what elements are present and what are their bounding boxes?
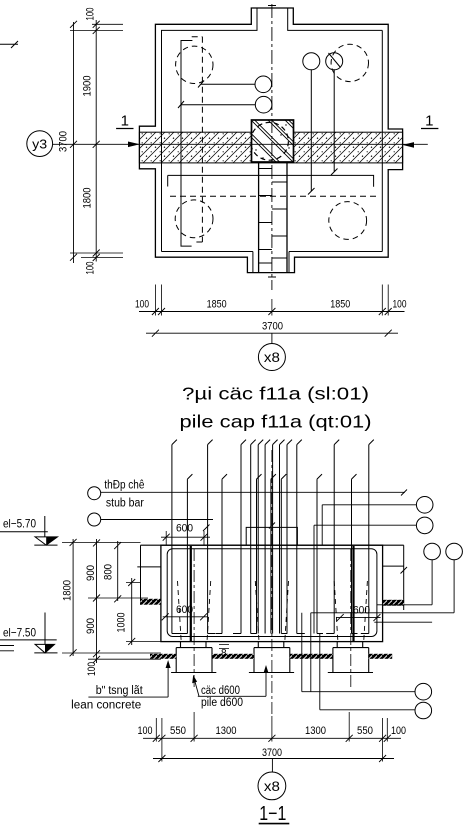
svg-text:100: 100 <box>391 725 406 737</box>
svg-text:100: 100 <box>86 662 98 676</box>
svg-text:1300: 1300 <box>216 725 237 737</box>
callout circle R4 <box>311 543 463 692</box>
svg-text:100: 100 <box>85 262 97 275</box>
label pile d600 <box>192 665 268 709</box>
svg-text:600: 600 <box>353 605 370 617</box>
pile 1 below cap <box>171 642 216 673</box>
section title 1-1 <box>259 803 290 825</box>
dim line 900/900/100 <box>93 539 100 663</box>
count bubble x8 (plan) <box>258 333 285 370</box>
left lean concrete pad <box>141 599 161 605</box>
right formwork step <box>383 545 407 610</box>
extension lines plan bottom <box>155 285 388 316</box>
dim line 100/1900/1800/100 vertical <box>93 20 100 262</box>
hatched concrete band (section cut strip) <box>139 132 402 163</box>
pile circle bottom-right (dashed) <box>329 202 367 240</box>
svg-text:cäc d600: cäc d600 <box>201 685 240 697</box>
rebar callout circle c1 <box>198 76 272 93</box>
pile 1 centre line <box>193 549 195 689</box>
extension lines section bottom <box>156 712 387 762</box>
ground / slab line across top <box>141 544 404 546</box>
svg-text:3700: 3700 <box>262 320 283 332</box>
svg-text:thÐp chê: thÐp chê <box>104 479 144 491</box>
bar feet hooks at cap bottom <box>172 633 369 635</box>
pile circle top-left (dashed) <box>176 46 213 83</box>
pile 2 below cap <box>249 642 294 673</box>
axis arrow right <box>402 142 414 148</box>
lean concrete layer strips <box>150 654 176 659</box>
dim line 1800 <box>70 539 77 656</box>
centre line vertical (plan) <box>268 4 276 290</box>
dim line 100/1850/1850/100 <box>139 308 405 315</box>
callout circle R3 <box>377 543 441 605</box>
embedded pile heads dashed (pile2) <box>255 581 288 640</box>
dim line 100/550/1300/1300/550/100 <box>143 735 401 742</box>
svg-text:x8: x8 <box>264 778 280 794</box>
svg-text:1300: 1300 <box>305 725 326 737</box>
rebar line solid horizontal <box>168 175 374 186</box>
svg-text:?µi cäc f11a (sl:01): ?µi cäc f11a (sl:01) <box>182 384 369 404</box>
svg-text:1850: 1850 <box>330 299 350 311</box>
main centre line (section) <box>271 450 273 714</box>
embedded pile heads dashed (pile1) <box>178 581 211 640</box>
svg-text:8: 8 <box>221 648 227 659</box>
pile 3 below cap <box>328 642 373 673</box>
svg-text:900: 900 <box>85 618 97 634</box>
heavy cut bar left <box>190 546 192 641</box>
hidden bottom mat line (dashed) <box>170 195 376 197</box>
rebar callout circle c3 <box>303 53 320 195</box>
svg-text:1: 1 <box>425 113 433 130</box>
svg-text:x8: x8 <box>264 349 280 365</box>
spacer bar mark 8 <box>219 645 229 660</box>
svg-text:lean concrete: lean concrete <box>71 700 141 712</box>
pile cap outer wall outline (plan) <box>139 8 402 273</box>
pile circle top-right (dashed) <box>331 44 368 81</box>
svg-text:1000: 1000 <box>116 613 128 633</box>
bottom tab inner walls <box>253 252 289 273</box>
dim 600 mid-left <box>162 613 208 620</box>
svg-text:600: 600 <box>176 523 193 535</box>
dim line 800 <box>114 541 121 602</box>
svg-text:y3: y3 <box>32 137 47 152</box>
svg-text:pile cap f11a (qt:01): pile cap f11a (qt:01) <box>180 412 372 432</box>
pile cap body (section) <box>161 545 383 641</box>
count bubble x8 (section) <box>258 759 286 800</box>
right lean concrete pad <box>383 600 404 606</box>
svg-text:100: 100 <box>85 8 97 21</box>
svg-text:3700: 3700 <box>262 747 282 759</box>
dim line 3700 (section) <box>153 755 394 762</box>
dim line 3700 horizontal <box>146 330 398 337</box>
label lean concrete <box>71 660 170 712</box>
svg-text:1−1: 1−1 <box>259 803 286 825</box>
section mark 1 left <box>116 113 133 130</box>
stub bar callout circle L1 with label <box>88 479 407 509</box>
callout circle R1 <box>322 497 433 546</box>
dim line 3700 vertical <box>70 21 77 263</box>
pile 3 centre line <box>350 549 352 689</box>
svg-text:bʺ tsng lãt: bʺ tsng lãt <box>96 685 144 697</box>
axis arrow left <box>128 142 140 148</box>
svg-text:100: 100 <box>138 725 153 737</box>
rebar callout circle c4 <box>326 53 343 175</box>
svg-text:1800: 1800 <box>82 188 94 209</box>
extension lines plan left <box>70 24 123 257</box>
second row bars (shorter) <box>187 474 356 633</box>
svg-text:1850: 1850 <box>207 299 227 311</box>
page edge mark top-left <box>0 41 18 48</box>
svg-text:800: 800 <box>103 564 115 580</box>
svg-text:100: 100 <box>393 299 407 311</box>
stub bars (tall verticals with hooks) <box>172 440 374 634</box>
svg-text:3700: 3700 <box>58 131 70 152</box>
left formwork step <box>137 545 161 605</box>
dim line 1000 <box>128 578 135 645</box>
svg-text:el−5.70: el−5.70 <box>3 517 36 531</box>
rebar callout circle c2 <box>178 96 272 113</box>
inner wall line top <box>162 8 383 252</box>
wall strip below column (ladder) <box>259 162 287 273</box>
grid bubble y3 <box>27 131 53 157</box>
dim 600 mid-right <box>336 614 381 621</box>
svg-text:900: 900 <box>85 565 97 581</box>
callout circle R2 <box>314 517 433 633</box>
section mark 1 right <box>421 113 438 130</box>
heavy cut bar right <box>352 546 354 641</box>
column stub outline above cap <box>246 523 297 546</box>
level marker el-7.50 <box>0 613 58 653</box>
svg-text:1800: 1800 <box>62 580 74 601</box>
svg-text:1: 1 <box>121 113 129 130</box>
stub bar callout circle L2 <box>88 513 213 531</box>
svg-text:600: 600 <box>176 604 193 616</box>
level marker el-5.70 <box>0 516 58 545</box>
stirrup cage outline (rounded) <box>167 549 377 637</box>
svg-text:stub bar: stub bar <box>106 497 144 509</box>
rebar line solid vertical <box>181 41 192 247</box>
embedded pile heads dashed (pile3) <box>334 581 367 640</box>
callout circle B1 <box>302 613 432 700</box>
column core (hatched square with d600 circle) <box>238 97 325 184</box>
svg-text:550: 550 <box>170 725 186 737</box>
svg-text:1900: 1900 <box>82 76 94 97</box>
dim 600 top (stub bars) <box>161 531 210 545</box>
svg-text:100: 100 <box>135 299 149 311</box>
axis line y3 horizontal <box>53 143 428 145</box>
extension lines section left <box>62 542 161 659</box>
pile circle bottom-left (dashed) <box>175 200 213 238</box>
inner wall line bottom <box>162 30 383 251</box>
callout circle B2 <box>320 634 432 719</box>
svg-text:550: 550 <box>357 725 373 737</box>
svg-text:el−7.50: el−7.50 <box>3 626 36 640</box>
hidden rebar line (dashed) left <box>192 37 203 242</box>
svg-text:pile d600: pile d600 <box>201 697 243 709</box>
